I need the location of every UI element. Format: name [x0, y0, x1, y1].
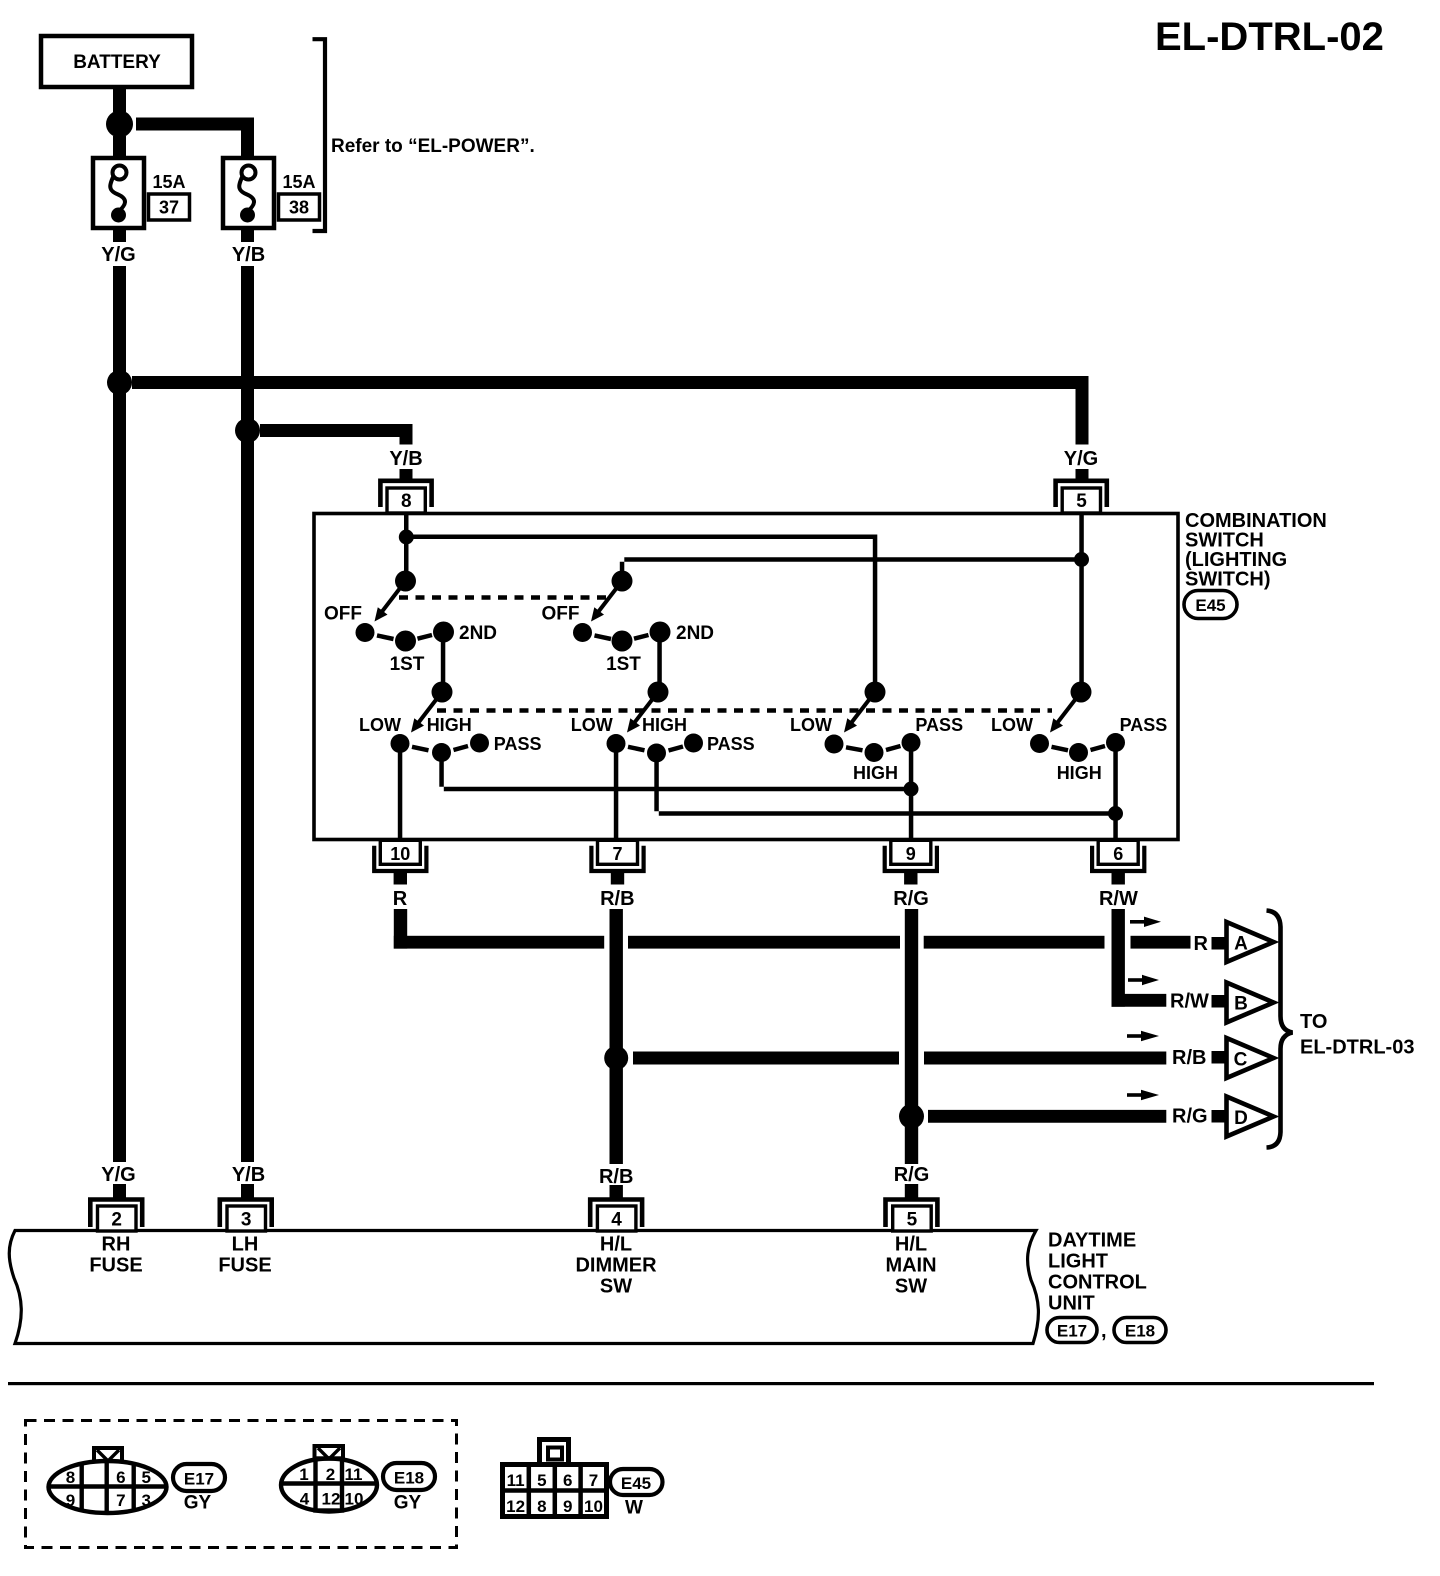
- svg-text:RH: RH: [102, 1234, 131, 1256]
- connector square B: [1212, 995, 1227, 1008]
- switch A link LOW-HIGH: [412, 747, 429, 751]
- dashed link switches A-D: [437, 708, 1052, 713]
- wire Y/G branch to pin 5: [132, 376, 1089, 445]
- svg-text:LOW: LOW: [359, 715, 401, 735]
- svg-text:5: 5: [141, 1468, 150, 1487]
- svg-text:EL-DTRL-02: EL-DTRL-02: [1155, 15, 1384, 59]
- svg-text:Y/B: Y/B: [232, 1164, 265, 1186]
- svg-text:GY: GY: [184, 1493, 212, 1514]
- switch D PASS contact: [1106, 733, 1125, 752]
- svg-text:R/G: R/G: [894, 1164, 930, 1186]
- switch 2 arm arrow: [591, 581, 622, 622]
- wire stub pin 8: [400, 469, 413, 480]
- connector label E45 oval: [1184, 591, 1237, 619]
- svg-text:SW: SW: [895, 1276, 927, 1298]
- svg-text:PASS: PASS: [494, 734, 542, 754]
- wire HIGH A to node F: [439, 761, 911, 791]
- separator line: [8, 1382, 1374, 1385]
- wire PASS D to pin 6: [1113, 751, 1118, 840]
- connector pin 7: [591, 840, 643, 884]
- wire stub pin 2: [113, 1184, 126, 1198]
- triangle D to EL-DTRL-03: [1227, 1097, 1274, 1137]
- svg-text:B: B: [1234, 994, 1248, 1015]
- switch C link HIGH-PASS: [886, 746, 901, 750]
- svg-text:E18: E18: [1125, 1322, 1155, 1341]
- triangle C to EL-DTRL-03: [1227, 1038, 1274, 1078]
- wire battery to junction: [113, 87, 126, 112]
- svg-text:R: R: [393, 888, 408, 910]
- fuse number box 37: [149, 194, 190, 220]
- svg-text:11: 11: [345, 1465, 363, 1484]
- svg-text:5: 5: [907, 1210, 918, 1231]
- svg-text:Y/B: Y/B: [389, 448, 422, 470]
- svg-text:E45: E45: [621, 1474, 651, 1493]
- wire stub pin 4: [610, 1185, 623, 1198]
- connector pin 10: [374, 840, 426, 884]
- svg-text:11: 11: [507, 1471, 525, 1490]
- node Y/G branch: [107, 370, 132, 395]
- svg-text:SWITCH): SWITCH): [1185, 569, 1271, 591]
- svg-text:1ST: 1ST: [390, 654, 425, 675]
- node G: [1108, 806, 1123, 821]
- label H/L DIMMER SW: [575, 1234, 657, 1298]
- svg-text:Y/B: Y/B: [232, 244, 265, 266]
- svg-text:10: 10: [345, 1490, 364, 1509]
- svg-text:LOW: LOW: [790, 715, 832, 735]
- wire stub pin 5 unit: [905, 1184, 918, 1198]
- wire junction to fuse 37: [113, 136, 126, 158]
- svg-text:DIMMER: DIMMER: [575, 1255, 657, 1277]
- direction arrow D: [1127, 1090, 1159, 1100]
- svg-text:W: W: [625, 1498, 643, 1519]
- switch 1 arm arrow: [375, 581, 406, 622]
- switch C PASS contact: [902, 733, 921, 752]
- wire Y/G vertical: [113, 266, 126, 1162]
- node R/G branch: [899, 1104, 924, 1129]
- svg-text:HIGH: HIGH: [642, 715, 687, 735]
- svg-text:MAIN: MAIN: [885, 1255, 936, 1277]
- label H/L MAIN SW: [885, 1234, 936, 1298]
- switch A link HIGH-PASS: [454, 746, 469, 750]
- svg-text:15A: 15A: [153, 172, 186, 192]
- svg-text:R/B: R/B: [1172, 1047, 1206, 1069]
- wire pin8 branch to switch C: [406, 535, 877, 686]
- svg-text:SW: SW: [600, 1276, 632, 1298]
- connector pin 4: [590, 1200, 642, 1232]
- switch C pivot: [865, 682, 886, 703]
- triangle A to EL-DTRL-03: [1227, 922, 1274, 962]
- label daytime light control unit: [1048, 1230, 1147, 1315]
- switch C LOW contact: [825, 735, 844, 754]
- switch C arm arrow: [844, 692, 875, 733]
- connector label E18 oval: [1114, 1318, 1166, 1343]
- connector label E17 oval: [1047, 1318, 1097, 1343]
- legend dashed box: [26, 1421, 457, 1548]
- svg-text:LOW: LOW: [991, 715, 1033, 735]
- svg-text:Y/G: Y/G: [101, 244, 135, 266]
- svg-text:D: D: [1234, 1108, 1248, 1129]
- battery B1: [41, 36, 192, 87]
- svg-text:Y/G: Y/G: [101, 1164, 135, 1186]
- svg-text:CONTROL: CONTROL: [1048, 1272, 1147, 1294]
- wire R horizontal: [394, 936, 1191, 949]
- wire fuse38 stub: [241, 228, 254, 242]
- switch 2 link 1ST-2ND: [634, 635, 649, 639]
- switch A arm arrow: [411, 692, 442, 733]
- svg-text:9: 9: [906, 844, 916, 864]
- wire pin5 branch to switch 2: [620, 557, 1081, 574]
- svg-text:DAYTIME: DAYTIME: [1048, 1230, 1136, 1252]
- switch 1 1ST contact: [395, 631, 416, 652]
- svg-text:6: 6: [563, 1471, 572, 1490]
- svg-text:R/B: R/B: [600, 888, 634, 910]
- dashed link switches 1-2: [399, 595, 607, 600]
- connector pin 8: [380, 481, 431, 513]
- fuse 38 15A: [223, 158, 274, 228]
- node F: [904, 782, 919, 797]
- svg-text:R: R: [1194, 933, 1209, 955]
- wire LOW B to pin 7: [614, 752, 619, 840]
- switch D HIGH contact: [1069, 743, 1088, 762]
- switch 2 link OFF-1ST: [595, 635, 612, 639]
- svg-text:PASS: PASS: [915, 715, 963, 735]
- label TO EL-DTRL-03: [1300, 1011, 1414, 1059]
- switch B LOW contact: [607, 734, 626, 753]
- wire stub pin 5: [1076, 469, 1089, 480]
- label combination switch: [1185, 510, 1327, 591]
- wire R/B vertical from pin 7: [610, 909, 623, 1164]
- svg-text:10: 10: [584, 1497, 603, 1516]
- connector pin 5 unit: [886, 1200, 938, 1232]
- svg-text:A: A: [1234, 934, 1248, 955]
- svg-text:R/G: R/G: [893, 888, 929, 910]
- svg-text:1: 1: [299, 1465, 308, 1484]
- wire R/G horizontal: [928, 1110, 1166, 1123]
- switch 1 2ND contact: [433, 622, 454, 643]
- svg-text:6: 6: [1113, 844, 1123, 864]
- svg-text:,: ,: [1101, 1320, 1107, 1342]
- svg-text:10: 10: [390, 844, 410, 864]
- svg-text:3: 3: [241, 1210, 252, 1231]
- switch A HIGH contact: [432, 743, 451, 762]
- switch 1 pivot: [395, 571, 416, 592]
- switch A LOW contact: [391, 734, 410, 753]
- switch A pivot: [432, 682, 453, 703]
- switch B link LOW-HIGH: [628, 747, 645, 751]
- svg-text:E45: E45: [1195, 596, 1225, 615]
- svg-text:6: 6: [116, 1468, 125, 1487]
- label RH FUSE: [89, 1234, 142, 1277]
- svg-text:PASS: PASS: [1120, 715, 1168, 735]
- svg-text:4: 4: [300, 1490, 310, 1509]
- switch D LOW contact: [1030, 734, 1049, 753]
- node R/B branch: [604, 1046, 628, 1070]
- svg-text:5: 5: [1076, 491, 1087, 512]
- svg-text:7: 7: [612, 844, 622, 864]
- svg-text:R/G: R/G: [1172, 1106, 1208, 1128]
- connector square D: [1212, 1110, 1227, 1123]
- wire R/W vertical from pin 6: [1112, 909, 1125, 1007]
- switch B arm arrow: [627, 692, 658, 733]
- svg-text:TO: TO: [1300, 1011, 1327, 1033]
- svg-text:3: 3: [141, 1491, 150, 1510]
- svg-text:2ND: 2ND: [459, 623, 497, 644]
- direction arrow B: [1128, 975, 1159, 985]
- svg-text:HIGH: HIGH: [853, 763, 898, 783]
- svg-text:37: 37: [159, 198, 179, 218]
- svg-text:12: 12: [506, 1497, 525, 1516]
- switch 2 pivot: [612, 571, 633, 592]
- svg-text:LOW: LOW: [571, 715, 613, 735]
- svg-text:E17: E17: [184, 1470, 214, 1489]
- connector pin 3: [220, 1200, 272, 1232]
- switch C HIGH contact: [865, 743, 884, 762]
- svg-text:R/W: R/W: [1170, 991, 1209, 1013]
- svg-text:12: 12: [322, 1490, 341, 1509]
- svg-text:GY: GY: [394, 1493, 422, 1514]
- switch 2 2ND contact: [650, 622, 671, 643]
- connector square C: [1212, 1051, 1227, 1064]
- svg-text:38: 38: [289, 198, 309, 218]
- wire HIGH B to node G: [654, 762, 1116, 816]
- wire R vertical from pin 10: [394, 909, 407, 949]
- svg-text:LH: LH: [232, 1234, 259, 1256]
- svg-text:2: 2: [111, 1210, 122, 1231]
- node pin5 branch: [1074, 552, 1089, 567]
- connector pin 2: [90, 1200, 142, 1232]
- switch 1 link 1ST-2ND: [418, 635, 433, 639]
- switch 2 1ST contact: [612, 631, 633, 652]
- switch 2 OFF contact: [573, 623, 592, 642]
- svg-text:FUSE: FUSE: [218, 1255, 271, 1277]
- label LH FUSE: [218, 1234, 271, 1277]
- combination switch box: [314, 514, 1178, 840]
- wire PASS C to pin 9: [909, 751, 914, 840]
- svg-text:8: 8: [537, 1497, 546, 1516]
- connector pin 6: [1092, 840, 1144, 884]
- connector label E45 legend: [610, 1469, 663, 1495]
- svg-text:1ST: 1ST: [606, 654, 641, 675]
- svg-text:9: 9: [66, 1491, 75, 1510]
- svg-text:4: 4: [611, 1210, 622, 1231]
- switch B link HIGH-PASS: [669, 747, 684, 751]
- switch B PASS contact: [684, 734, 703, 753]
- connector square A: [1212, 937, 1227, 950]
- connector label E18 legend: [383, 1463, 435, 1490]
- wire pin 8 down: [404, 514, 409, 574]
- svg-text:H/L: H/L: [895, 1234, 927, 1256]
- svg-text:H/L: H/L: [600, 1234, 632, 1256]
- svg-text:FUSE: FUSE: [89, 1255, 142, 1277]
- switch B pivot: [648, 682, 669, 703]
- svg-text:UNIT: UNIT: [1048, 1293, 1095, 1315]
- wire stub pin 3: [241, 1184, 254, 1198]
- switch C link LOW-HIGH: [846, 747, 863, 750]
- wire fuse37 stub: [113, 228, 126, 242]
- svg-text:C: C: [1234, 1050, 1248, 1071]
- svg-text:5: 5: [537, 1471, 546, 1490]
- svg-text:E18: E18: [394, 1469, 424, 1488]
- svg-text:HIGH: HIGH: [427, 715, 472, 735]
- wire 2ND-1 to switch A pivot: [441, 641, 446, 686]
- svg-text:7: 7: [589, 1471, 598, 1490]
- svg-text:Y/G: Y/G: [1064, 448, 1098, 470]
- wire 2ND-2 to switch B pivot: [657, 641, 662, 686]
- connector face E17: [48, 1448, 167, 1513]
- wire pin 5 down: [1079, 514, 1084, 686]
- switch D pivot: [1071, 682, 1092, 703]
- wire R/W horizontal: [1112, 994, 1167, 1007]
- triangle B to EL-DTRL-03: [1227, 983, 1274, 1023]
- wire Y/B branch to pin 8: [260, 424, 413, 445]
- svg-text:9: 9: [563, 1497, 572, 1516]
- switch D arm arrow: [1050, 692, 1081, 733]
- switch 1 link OFF-1ST: [377, 635, 394, 639]
- connector pin 9: [885, 840, 937, 884]
- fuse number box 38: [279, 194, 320, 220]
- wire Y/B vertical: [241, 266, 254, 1162]
- connector pin 5: [1056, 481, 1107, 513]
- daytime light control unit box: [9, 1231, 1038, 1344]
- direction arrow A: [1130, 917, 1161, 927]
- svg-text:PASS: PASS: [707, 734, 755, 754]
- svg-text:LIGHT: LIGHT: [1048, 1251, 1108, 1273]
- switch 1 OFF contact: [356, 623, 375, 642]
- connector face E18: [280, 1446, 378, 1512]
- svg-text:2ND: 2ND: [676, 623, 714, 644]
- node battery junction: [106, 111, 133, 138]
- svg-text:OFF: OFF: [542, 604, 580, 625]
- svg-text:OFF: OFF: [324, 604, 362, 625]
- svg-text:8: 8: [401, 491, 412, 512]
- node pin8 branch: [399, 530, 414, 545]
- svg-text:E17: E17: [1057, 1322, 1087, 1341]
- node Y/B branch: [235, 418, 260, 443]
- switch B HIGH contact: [647, 744, 666, 763]
- svg-text:8: 8: [66, 1468, 75, 1487]
- direction arrow C: [1127, 1031, 1159, 1041]
- svg-text:BATTERY: BATTERY: [73, 52, 161, 73]
- bracket refer note: [313, 39, 326, 231]
- svg-text:R/B: R/B: [599, 1166, 633, 1188]
- svg-text:HIGH: HIGH: [1057, 763, 1102, 783]
- svg-text:EL-DTRL-03: EL-DTRL-03: [1300, 1037, 1414, 1059]
- connector face E45: [503, 1440, 607, 1517]
- fuse 37 15A: [93, 158, 144, 228]
- switch D link LOW-HIGH: [1052, 747, 1069, 751]
- svg-text:15A: 15A: [283, 172, 316, 192]
- wire junction to fuse 38: [136, 118, 254, 158]
- svg-text:7: 7: [116, 1491, 125, 1510]
- wire R/B horizontal: [633, 1052, 1166, 1065]
- wire LOW A to pin 10: [398, 752, 403, 840]
- svg-text:Refer to “EL-POWER”.: Refer to “EL-POWER”.: [331, 136, 535, 157]
- connector label E17 legend: [173, 1464, 225, 1491]
- wire R/G vertical from pin 9: [905, 909, 918, 1164]
- svg-text:R/W: R/W: [1099, 888, 1138, 910]
- brace to EL-DTRL-03: [1267, 911, 1293, 1148]
- svg-text:2: 2: [326, 1465, 335, 1484]
- switch D link HIGH-PASS: [1091, 746, 1106, 750]
- switch A PASS contact: [470, 734, 489, 753]
